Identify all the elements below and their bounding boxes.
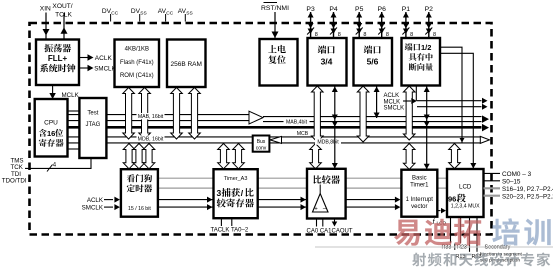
svg-text:CC: CC — [111, 11, 118, 17]
svg-text:CA0 CA1CAOUT: CA0 CA1CAOUT — [307, 229, 353, 235]
svg-text:SMCLK: SMCLK — [82, 205, 104, 212]
svg-text:Timer_A3: Timer_A3 — [224, 176, 248, 182]
svg-text:P5: P5 — [355, 6, 364, 13]
svg-text:CC: CC — [166, 11, 173, 17]
svg-text:SS: SS — [186, 11, 192, 17]
svg-text:RST/NMI: RST/NMI — [261, 5, 289, 12]
svg-text:SMCLK: SMCLK — [384, 106, 405, 112]
svg-text:P6: P6 — [378, 6, 387, 13]
svg-text:FLL+: FLL+ — [48, 54, 68, 63]
svg-text:TDO/TDI: TDO/TDI — [2, 178, 27, 185]
svg-text:96: 96 — [448, 195, 456, 204]
svg-text:16: 16 — [47, 129, 55, 138]
svg-text:S0–15: S0–15 — [502, 179, 521, 186]
svg-text:3/4: 3/4 — [321, 57, 333, 67]
svg-text:Flash (F41x): Flash (F41x) — [120, 60, 154, 66]
svg-text:1 Interrupt: 1 Interrupt — [406, 197, 434, 203]
svg-text:1,2,3,4 MUX: 1,2,3,4 MUX — [451, 204, 480, 210]
svg-text:P1: P1 — [402, 6, 411, 13]
svg-text:+: + — [314, 207, 318, 213]
svg-text:conv: conv — [256, 146, 267, 152]
svg-text:S20–23, P2.5–P2.2: S20–23, P2.5–P2.2 — [502, 193, 553, 200]
svg-text:ROM (C41x): ROM (C41x) — [120, 73, 154, 79]
svg-text:MAB, 16bit: MAB, 16bit — [138, 114, 164, 120]
svg-text:SS: SS — [140, 11, 146, 17]
svg-text:XOUT/: XOUT/ — [52, 3, 72, 10]
svg-text:Timer1: Timer1 — [410, 183, 429, 189]
svg-text:Test: Test — [87, 111, 98, 117]
svg-text:Bus: Bus — [257, 139, 266, 145]
svg-text:DV: DV — [102, 8, 112, 15]
svg-text:15 / 16 bit: 15 / 16 bit — [128, 206, 151, 212]
svg-text:ACLK: ACLK — [87, 197, 104, 204]
svg-text:AV: AV — [158, 8, 167, 15]
svg-text:COM0 – 3: COM0 – 3 — [502, 171, 532, 178]
svg-text:3: 3 — [217, 188, 222, 198]
svg-text:XIN: XIN — [40, 6, 51, 13]
svg-text:P4: P4 — [329, 6, 338, 13]
svg-text:MCB: MCB — [297, 131, 309, 137]
svg-text:MAB,4bit: MAB,4bit — [286, 119, 308, 125]
svg-text:JTAG: JTAG — [85, 122, 100, 128]
svg-text:P2: P2 — [425, 6, 434, 13]
svg-text:AV: AV — [178, 8, 187, 15]
svg-text:ACLK: ACLK — [384, 93, 400, 99]
svg-text:DV: DV — [131, 8, 141, 15]
svg-text:SMCLK: SMCLK — [94, 66, 116, 73]
svg-text:vector: vector — [411, 204, 427, 210]
svg-text:MCLK: MCLK — [384, 99, 401, 105]
svg-text:ACLK: ACLK — [95, 55, 113, 62]
svg-text:4KB/1KB: 4KB/1KB — [125, 47, 149, 53]
svg-text:1/2: 1/2 — [421, 43, 431, 52]
svg-text:MDB, 16bit: MDB, 16bit — [138, 137, 164, 143]
svg-text:S16–19, P2.7–P2.4: S16–19, P2.7–P2.4 — [502, 186, 553, 193]
svg-text:5/6: 5/6 — [367, 57, 379, 67]
svg-text:Basic: Basic — [412, 176, 427, 182]
svg-text:256B RAM: 256B RAM — [170, 61, 201, 68]
svg-text:P3: P3 — [306, 6, 315, 13]
svg-text:LCD: LCD — [459, 184, 472, 191]
svg-text:CPU: CPU — [44, 120, 58, 127]
svg-text:TACLK TA0–2: TACLK TA0–2 — [211, 228, 249, 234]
svg-text:MDB,8bit: MDB,8bit — [317, 140, 339, 146]
